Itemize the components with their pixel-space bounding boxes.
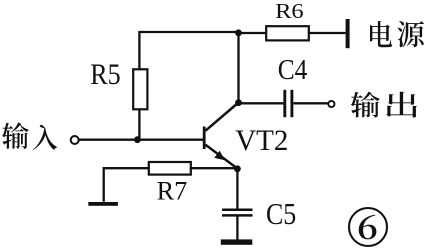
figure number digit 6 — [359, 215, 377, 240]
transistor VT2 collector line — [206, 103, 239, 131]
capacitor C4 plates — [285, 90, 292, 117]
label power 源 — [397, 21, 424, 47]
svg-text:C5: C5 — [266, 196, 296, 231]
node junction at emitter/R7/C5 — [234, 165, 241, 172]
ground bar under R7 — [88, 202, 118, 206]
resistor R5 — [133, 69, 147, 109]
svg-text:VT2: VT2 — [235, 124, 288, 157]
wire bottom lead of R5 down to input line — [138, 109, 140, 141]
resistor R7 — [149, 162, 191, 175]
output terminal circle — [328, 101, 334, 107]
transistor VT2 base bar — [203, 127, 206, 150]
wire R6 right lead to supply bar — [309, 32, 346, 34]
capacitor C5 plates — [222, 210, 253, 216]
label output 出 — [386, 92, 417, 118]
svg-text:C4: C4 — [278, 54, 308, 86]
wire input line from input terminal to base — [79, 139, 204, 141]
svg-text:R6: R6 — [275, 0, 304, 23]
svg-text:R7: R7 — [157, 176, 188, 206]
wire C5 bottom lead to ground — [236, 217, 238, 241]
resistor R6 — [266, 26, 309, 40]
label input 输 — [2, 122, 29, 148]
wire top rail from R5 branch to collector node — [138, 31, 238, 33]
wire C4 right lead to output terminal — [293, 102, 327, 104]
svg-text:R5: R5 — [90, 59, 120, 91]
label power 电 — [370, 21, 392, 47]
ground bar under C5 — [221, 239, 253, 244]
wire R7 left lead and ground stem — [104, 168, 149, 202]
node junction at collector/C4 — [235, 99, 242, 106]
node junction at top rail — [235, 29, 242, 36]
label input 入 — [33, 125, 57, 151]
wire C4 left lead from collector node — [239, 102, 284, 104]
transistor VT2 emitter arrow — [214, 151, 225, 161]
node junction at input/R5 — [134, 136, 141, 143]
transistor VT2 emitter line — [206, 145, 238, 169]
power supply terminal bar — [346, 19, 350, 48]
wire R6 left lead — [238, 32, 267, 34]
label output 输 — [351, 92, 380, 118]
wire C5 top lead from emitter node — [236, 169, 238, 209]
wire R7 right lead to emitter node — [191, 167, 238, 169]
wire top lead of R5 up to top rail — [138, 32, 140, 70]
input terminal circle — [71, 136, 79, 144]
wire collector vertical from top rail to node — [237, 32, 239, 103]
figure number circle 6 — [349, 208, 387, 246]
